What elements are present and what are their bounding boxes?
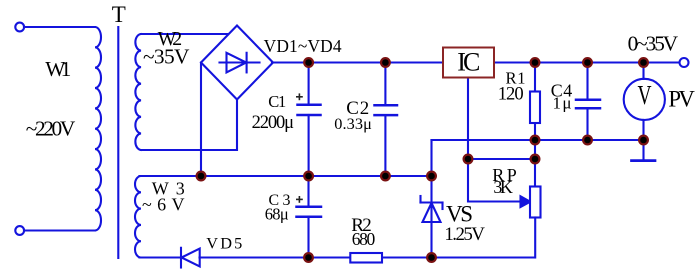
svg-text:0.33μ: 0.33μ <box>334 114 372 133</box>
svg-text:PV: PV <box>668 86 695 111</box>
svg-text:3K: 3K <box>493 177 513 197</box>
svg-text:120: 120 <box>498 83 524 104</box>
svg-text:V: V <box>637 81 651 111</box>
svg-text:1.25V: 1.25V <box>444 224 485 245</box>
svg-text:68μ: 68μ <box>265 205 289 224</box>
svg-text:T: T <box>112 2 126 27</box>
svg-text:0~35V: 0~35V <box>628 31 679 55</box>
svg-text:2200μ: 2200μ <box>252 113 295 133</box>
svg-text:C1: C1 <box>268 92 286 111</box>
svg-text:IC: IC <box>457 47 480 76</box>
svg-text:~35V: ~35V <box>143 45 190 69</box>
svg-text:~220V: ~220V <box>26 117 76 141</box>
svg-text:W1: W1 <box>45 57 71 81</box>
svg-text:VD5: VD5 <box>206 233 242 252</box>
svg-text:VS: VS <box>446 201 473 226</box>
svg-text:1μ: 1μ <box>553 94 572 113</box>
svg-text:~6V: ~6V <box>142 194 185 214</box>
svg-text:680: 680 <box>352 229 376 249</box>
svg-text:VD1~VD4: VD1~VD4 <box>264 36 342 56</box>
